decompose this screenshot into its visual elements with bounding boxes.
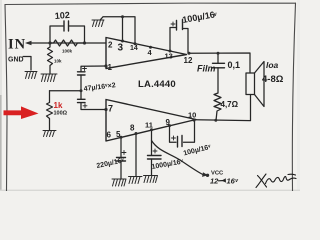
svg-text:IN: IN — [8, 37, 26, 53]
svg-text:loa: loa — [266, 60, 279, 70]
svg-text:1: 1 — [108, 63, 113, 72]
svg-text:16ᵛ: 16ᵛ — [227, 177, 239, 186]
svg-text:5: 5 — [116, 130, 121, 139]
svg-text:GND: GND — [8, 57, 24, 64]
svg-text:100Ω: 100Ω — [54, 111, 68, 117]
svg-text:11: 11 — [145, 121, 153, 130]
svg-text:2: 2 — [108, 41, 113, 50]
svg-text:13: 13 — [165, 52, 173, 61]
svg-text:100k: 100k — [62, 49, 73, 54]
svg-text:0,1: 0,1 — [228, 60, 241, 70]
svg-text:4,7Ω: 4,7Ω — [221, 100, 239, 109]
svg-text:14: 14 — [130, 45, 138, 52]
svg-text:4-8Ω: 4-8Ω — [262, 74, 284, 85]
svg-text:10k: 10k — [54, 59, 62, 64]
svg-text:1k: 1k — [54, 101, 63, 110]
svg-text:8: 8 — [130, 124, 135, 133]
svg-text:7: 7 — [108, 104, 113, 114]
svg-text:3: 3 — [118, 43, 124, 54]
svg-text:6: 6 — [107, 131, 112, 140]
svg-text:Film: Film — [197, 64, 216, 74]
svg-text:102: 102 — [54, 10, 70, 21]
svg-text:LA.4440: LA.4440 — [138, 79, 176, 90]
svg-text:9: 9 — [166, 118, 171, 127]
svg-text:10: 10 — [188, 111, 196, 120]
svg-text:12: 12 — [184, 56, 193, 65]
svg-text:12: 12 — [210, 177, 219, 186]
